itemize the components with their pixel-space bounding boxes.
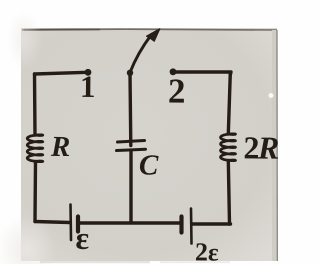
- wire bottom-middle: [79, 221, 181, 224]
- switch S pivot junction: [127, 70, 133, 76]
- wire left vertical lower: [33, 162, 37, 222]
- wire switch pivot down to capacitor: [128, 74, 132, 146]
- svg-text:2R: 2R: [243, 129, 279, 165]
- wire right vertical lower: [228, 161, 229, 225]
- wire capacitor to bottom: [129, 151, 132, 222]
- svg-text:ε: ε: [75, 220, 89, 256]
- node 1 (switch contact): [85, 69, 92, 76]
- svg-text:2: 2: [168, 71, 186, 110]
- svg-text:1: 1: [80, 69, 96, 104]
- bottom edge smudges: [40, 261, 150, 263]
- node 2 (switch contact): [170, 68, 177, 75]
- battery ε short plate (-): [76, 217, 80, 232]
- wire bottom-right: [192, 222, 231, 225]
- svg-text:2ε: 2ε: [195, 237, 219, 264]
- battery ε long plate (+): [69, 205, 72, 241]
- wire left vertical upper: [33, 74, 37, 135]
- paper top edge line: [22, 28, 277, 31]
- wire top-right horizontal: [173, 72, 231, 75]
- wire top-left horizontal: [35, 72, 88, 74]
- white speck: [269, 93, 274, 98]
- battery 2ε short plate (-): [179, 217, 183, 233]
- resistor R: [27, 135, 43, 162]
- switch S arm: [130, 35, 152, 73]
- capacitor C top plate: [118, 141, 145, 143]
- svg-text:C: C: [139, 149, 159, 181]
- switch S arrowhead: [147, 29, 160, 41]
- photo paper: [21, 28, 277, 261]
- right page edge shading: [272, 30, 277, 261]
- svg-text:R: R: [50, 131, 71, 163]
- wire right vertical upper: [228, 73, 230, 134]
- battery 2ε long plate (+): [190, 209, 193, 244]
- wire bottom-left: [35, 222, 70, 223]
- corner light (page curl): [0, 0, 1, 1]
- capacitor C bottom plate: [117, 149, 146, 150]
- resistor 2R: [221, 134, 236, 161]
